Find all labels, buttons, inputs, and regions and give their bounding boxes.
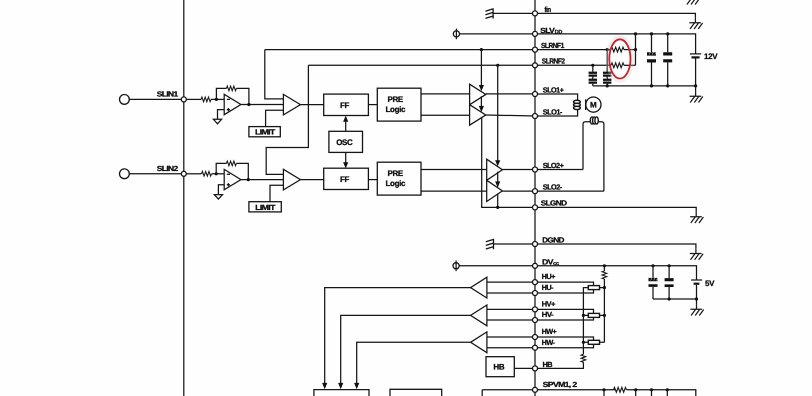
coil L2 xyxy=(583,117,604,191)
resistor RNF1 xyxy=(611,47,624,52)
node SLRNF1 tap xyxy=(606,48,609,51)
svg-text:DV: DV xyxy=(542,257,554,266)
hall element HU xyxy=(535,282,604,293)
output buffer B4 xyxy=(487,180,503,201)
partial ground top edge xyxy=(687,0,700,5)
hall element HV xyxy=(535,309,604,320)
arrow OSC to FF1 xyxy=(345,121,347,132)
svg-text:SLO2-: SLO2- xyxy=(543,183,563,192)
svg-text:FF: FF xyxy=(340,175,350,184)
pin SLO2+ xyxy=(533,167,538,172)
comparator A2 xyxy=(283,94,300,115)
wire comparator A4 lower input to LIMIT xyxy=(270,185,283,202)
wire SLGND right xyxy=(535,207,696,211)
pin HW+ xyxy=(533,335,538,340)
pin SLVDD xyxy=(533,31,538,36)
wire DGND xyxy=(494,244,696,249)
wires amp HV inputs xyxy=(487,309,535,320)
stub SPVM 3 xyxy=(651,390,653,396)
svg-text:SLV: SLV xyxy=(540,26,555,35)
wire amp HV out xyxy=(341,315,471,384)
capacitor C12b leads xyxy=(667,34,669,86)
wire 5V ground stem xyxy=(696,299,698,304)
svg-text:M: M xyxy=(590,101,597,110)
wire U1 output xyxy=(241,104,284,106)
plus sign U1 xyxy=(227,108,230,111)
svg-text:5V: 5V xyxy=(705,279,715,288)
arrow HV into box xyxy=(338,383,343,389)
wire SLO1- xyxy=(486,111,578,116)
pin fin xyxy=(533,11,538,16)
wire SLIN2 to R input xyxy=(186,173,201,175)
svg-text:SLGND: SLGND xyxy=(541,199,568,208)
stub SPVM 2 xyxy=(635,390,637,396)
ground gt1 xyxy=(213,119,221,124)
hall right rail xyxy=(603,288,605,343)
svg-text:OSC: OSC xyxy=(336,138,353,147)
input terminal SLIN1 xyxy=(120,95,130,105)
node DVcc hall tap xyxy=(603,264,606,267)
wire B4 common down xyxy=(497,194,499,207)
node SLRNF2 tap xyxy=(591,64,594,67)
hall element HW xyxy=(535,337,604,348)
resistor RNF2 xyxy=(611,63,624,68)
pin SLIN2 xyxy=(181,171,186,176)
wire SLO1+ xyxy=(486,94,578,98)
pin HU- xyxy=(533,291,538,296)
node hall HU right xyxy=(603,286,606,289)
resistor hall top xyxy=(602,266,607,288)
svg-text:12V: 12V xyxy=(704,52,718,61)
hall amp HW xyxy=(471,332,487,353)
svg-text:DD: DD xyxy=(555,29,563,35)
svg-text:SLO1-: SLO1- xyxy=(543,108,563,117)
node hall HV left xyxy=(582,314,585,317)
bottom box 1 xyxy=(314,390,369,396)
wire SLIN1 terminal to pin xyxy=(129,98,184,100)
svg-text:fin: fin xyxy=(544,5,551,14)
pin column line xyxy=(534,0,536,396)
pin DGND xyxy=(533,242,538,247)
ground 5V xyxy=(690,304,703,315)
ground 12V xyxy=(690,91,703,102)
arrow into B2 xyxy=(480,96,482,106)
resistor R-in1 xyxy=(201,97,211,102)
wire SLO2- xyxy=(502,190,604,192)
wire 5V bottom rail xyxy=(653,298,697,300)
ground DGND right xyxy=(690,249,703,260)
svg-text:HV-: HV- xyxy=(542,310,555,319)
arrow OSC to FF2 xyxy=(345,152,347,163)
node 5V cap2 xyxy=(668,264,671,267)
svg-text:LIMIT: LIMIT xyxy=(255,128,276,137)
wire PRE2 out lower to buffer xyxy=(421,190,487,192)
wires amp HU inputs xyxy=(487,282,535,293)
pin HB xyxy=(533,366,538,371)
capacitor CA plates xyxy=(589,72,597,84)
arrow SLRNF2 into B3 xyxy=(497,65,499,160)
stub SPVM 4 xyxy=(666,390,668,396)
arrow SLRNF1 into B1 xyxy=(480,50,482,86)
pin SLRNF1 xyxy=(533,47,538,52)
svg-text:HB: HB xyxy=(543,360,553,369)
HB box xyxy=(486,357,514,377)
svg-text:SLO1+: SLO1+ xyxy=(543,86,565,95)
svg-text:PRE: PRE xyxy=(388,95,404,104)
wire RNF2 to node xyxy=(624,64,636,66)
svg-text:DGND: DGND xyxy=(542,235,565,244)
svg-text:LIMIT: LIMIT xyxy=(255,203,276,212)
wire node vertical xyxy=(635,34,637,65)
svg-text:Logic: Logic xyxy=(386,179,406,188)
pin HU+ xyxy=(533,280,538,285)
node SPVM 1 xyxy=(602,388,605,391)
resistor R-in2 xyxy=(202,172,212,177)
hall left rail xyxy=(583,288,588,355)
capacitor CB plates xyxy=(603,72,611,84)
pin SLO1+ xyxy=(533,92,538,97)
LIMIT box 2 xyxy=(249,202,281,212)
PRE Logic box 2 xyxy=(377,162,421,195)
wires amp HW inputs xyxy=(487,337,535,348)
wire SLIN1 to R input xyxy=(186,98,201,100)
hall amp HV xyxy=(471,305,487,326)
node rail cap1 xyxy=(650,32,653,35)
comparator A4 xyxy=(283,169,300,190)
capacitor C5b plates xyxy=(665,278,674,287)
svg-text:SLRNF2: SLRNF2 xyxy=(542,57,565,66)
svg-text:HU-: HU- xyxy=(542,283,554,292)
capacitor C12a leads xyxy=(651,34,653,86)
phi SLVDD xyxy=(453,29,459,40)
minus sign U1 xyxy=(227,98,230,100)
feedback resistor RF1 xyxy=(226,86,236,91)
svg-text:PRE: PRE xyxy=(388,169,404,178)
wire SLIN2 terminal to pin xyxy=(129,173,184,175)
svg-text:HU+: HU+ xyxy=(542,272,556,281)
pin DVcc xyxy=(533,263,538,268)
ground DGND left xyxy=(486,239,494,249)
pin HV- xyxy=(533,318,538,323)
wire SLRNF2 feedback drop to comparator xyxy=(266,65,308,174)
PRE Logic box 1 xyxy=(377,88,421,121)
wire HB box to pin xyxy=(514,367,535,369)
node rail cap2 xyxy=(666,32,669,35)
wire SLRNF2 xyxy=(308,64,611,66)
ground gt2 xyxy=(214,195,222,200)
capacitor C12a plates hatched xyxy=(647,52,656,63)
capacitor C12b plates xyxy=(663,52,672,62)
coil L1 xyxy=(574,98,581,111)
svg-text:HW-: HW- xyxy=(542,338,556,347)
svg-text:SPVM1, 2: SPVM1, 2 xyxy=(543,380,577,389)
wire fin xyxy=(493,13,695,17)
op-amp U1 xyxy=(224,94,241,114)
OSC box xyxy=(329,131,363,152)
arrow HW into box xyxy=(354,383,359,389)
IC left boundary line xyxy=(183,0,185,396)
motor M1 xyxy=(586,97,601,112)
svg-text:HV+: HV+ xyxy=(542,300,556,309)
LIMIT box 1 xyxy=(249,127,280,137)
wire amp HU out xyxy=(325,288,471,384)
node U2 out xyxy=(247,178,250,181)
bottom box 2 xyxy=(390,389,442,396)
plus sign U2 xyxy=(227,183,230,186)
node bottom cap2 xyxy=(666,84,669,87)
svg-text:HB: HB xyxy=(493,363,504,372)
wire 12V ground stem xyxy=(695,86,697,91)
wire PRE1 out upper to buffer xyxy=(421,93,470,95)
node 5V bottom battery xyxy=(695,297,698,300)
FF1 box xyxy=(324,94,369,115)
node hall HV right xyxy=(603,314,606,317)
wire U2 plus to ground xyxy=(218,185,224,195)
feedback loop ch2 xyxy=(216,163,248,179)
node SLRNF1 drop xyxy=(480,48,483,51)
svg-text:SLIN2: SLIN2 xyxy=(157,164,178,173)
node rail 635 xyxy=(634,32,637,35)
ground fin left xyxy=(485,8,493,18)
wire U2 output xyxy=(241,179,284,181)
wire SLRNF1 xyxy=(265,49,608,51)
wire SLO2+ xyxy=(502,169,583,171)
wire FF2 to PRE2 xyxy=(368,179,377,181)
ground SLGND xyxy=(690,212,703,223)
pin SLO2- xyxy=(533,189,538,194)
highlight ellipse red xyxy=(609,39,630,78)
stub SPVM 1 xyxy=(603,390,605,396)
resistor SPVM xyxy=(614,387,627,392)
node A1 xyxy=(215,98,218,101)
wire 12V bottom rail xyxy=(593,85,696,87)
output buffer B1 xyxy=(470,84,486,105)
wire R to node A1 xyxy=(211,98,224,100)
resistor hall bottom xyxy=(538,354,586,368)
wire U1 plus to ground xyxy=(218,110,225,120)
battery 5V plates xyxy=(691,280,702,299)
output buffer B3 xyxy=(487,159,503,180)
highlight ellipse glow xyxy=(607,37,632,81)
wire amp HW out xyxy=(357,342,471,384)
wire PRE1 out lower to buffer xyxy=(421,114,470,116)
ground fin right xyxy=(689,18,702,29)
wire buffers common to SLGND xyxy=(482,118,533,208)
pin SLRNF2 xyxy=(533,63,538,68)
wire R to node A3 xyxy=(212,173,225,175)
op-amp U2 xyxy=(224,169,241,189)
wire comparator A2 lower input to LIMIT xyxy=(266,110,284,126)
capacitor branch A lead xyxy=(592,65,594,86)
svg-text:SLRNF1: SLRNF1 xyxy=(541,41,564,50)
svg-text:Logic: Logic xyxy=(386,105,406,114)
phi DVcc xyxy=(453,261,459,272)
node SPVM 2 xyxy=(634,388,637,391)
node 5V bottom cap2 xyxy=(668,297,671,300)
node RNF junction xyxy=(634,48,637,51)
svg-text:SLIN1: SLIN1 xyxy=(157,90,178,99)
capacitor C5b leads xyxy=(668,266,670,299)
minus sign U2 xyxy=(227,173,230,175)
input terminal SLIN2 xyxy=(120,169,130,179)
feedback resistor RF2 xyxy=(226,161,236,166)
node SLRNF2 drop xyxy=(496,64,499,67)
svg-text:cc: cc xyxy=(553,261,559,267)
hall amp HU xyxy=(471,277,487,298)
node bottom B xyxy=(606,84,609,87)
pin SLGND xyxy=(533,205,538,210)
pin SLO1- xyxy=(533,114,538,119)
node hall HW left xyxy=(582,341,585,344)
feedback loop ch1 xyxy=(216,88,249,104)
capacitor C5a leads xyxy=(652,266,654,299)
pin SLIN1 xyxy=(181,97,186,102)
FF2 box xyxy=(324,168,369,189)
battery 12V plates xyxy=(690,54,701,86)
node bottom battery xyxy=(694,84,697,87)
capacitor C5a plates hatched xyxy=(649,278,658,287)
bottom box 3 left edge xyxy=(481,390,483,396)
wire SLVDD rail xyxy=(460,34,696,54)
node SLGND junction xyxy=(496,206,499,209)
node U1 out xyxy=(247,103,250,106)
wire PRE2 out upper to buffer xyxy=(421,169,487,171)
wire SLRNF1 to R xyxy=(607,49,611,51)
svg-text:SLO2+: SLO2+ xyxy=(543,161,565,170)
node bottom cap1 xyxy=(650,84,653,87)
pin SPVM1,2 xyxy=(533,387,538,392)
node SPVM 3 xyxy=(650,388,653,391)
output buffer B2 xyxy=(470,105,486,126)
svg-text:HW+: HW+ xyxy=(542,327,558,336)
wire A4 out to FF2 xyxy=(300,179,323,181)
svg-text:FF: FF xyxy=(340,101,350,110)
node SPVM 4 xyxy=(666,388,669,391)
pin HW- xyxy=(533,345,538,350)
wire RNF1 to node xyxy=(624,49,636,51)
node 5V cap1 xyxy=(651,264,654,267)
arrow into B4 xyxy=(497,172,499,182)
wire DVcc rail xyxy=(459,266,696,280)
node A3 xyxy=(215,172,218,175)
capacitor branch B lead xyxy=(606,50,608,86)
pin HV+ xyxy=(533,307,538,312)
wire SLRNF1 feedback drop to comparator xyxy=(265,50,284,99)
wire FF1 to PRE1 xyxy=(368,104,377,106)
wire A2 out to FF1 xyxy=(300,104,323,106)
wire SPVM1,2 xyxy=(482,390,696,396)
arrow HU into box xyxy=(322,383,327,389)
